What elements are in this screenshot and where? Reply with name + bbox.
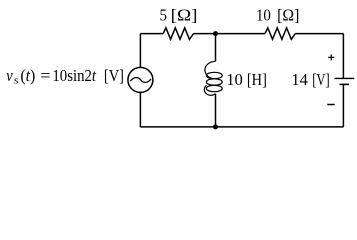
node A junction dot <box>213 31 218 36</box>
svg-text:[Ω]: [Ω] <box>277 6 299 25</box>
wire: left vertical bottom (source to corner) <box>139 92 141 127</box>
wire: top between node A and resistor R2 <box>216 33 266 35</box>
wire: middle branch bottom (inductor to node B) <box>215 94 217 127</box>
node B junction dot <box>213 124 218 129</box>
svg-text:s: s <box>14 76 19 87</box>
wire: top-left from corner to resistor R1 <box>140 33 163 35</box>
ac source sine wave <box>130 78 151 83</box>
inductor L1 loop 2 <box>206 79 222 85</box>
svg-text:5: 5 <box>160 6 167 25</box>
svg-text:[H]: [H] <box>247 70 267 89</box>
wire: right vertical bottom (battery to corner) <box>342 84 344 127</box>
wire: left vertical top (corner to source) <box>139 34 141 68</box>
wire: middle branch top (node A to inductor) <box>215 34 217 62</box>
inductor L1 loop 1 <box>206 72 222 78</box>
battery minus sign <box>327 104 334 106</box>
resistor R1 5 ohm <box>163 28 193 40</box>
svg-text:=: = <box>40 66 50 85</box>
svg-text:(t): (t) <box>20 66 35 85</box>
inductor L1 exit hook <box>204 85 215 95</box>
battery E1 long plate plus <box>335 77 355 79</box>
inductor L1 loop 3 <box>206 85 222 91</box>
wire: bottom horizontal <box>140 126 343 128</box>
ac source V1 circle <box>128 67 153 92</box>
svg-text:[V]: [V] <box>104 66 124 85</box>
svg-text:10: 10 <box>256 6 271 25</box>
battery plus sign <box>328 54 334 60</box>
wire: top-right from R2 to corner <box>295 33 343 35</box>
svg-text:10: 10 <box>226 70 243 89</box>
inductor L1 entry hook <box>205 61 216 78</box>
svg-text:[Ω]: [Ω] <box>171 6 198 25</box>
svg-text:14: 14 <box>291 70 308 89</box>
svg-text:10sin2t: 10sin2t <box>52 66 97 85</box>
wire: top between R1 and node A <box>194 33 216 35</box>
resistor R2 10 ohm <box>265 28 295 40</box>
svg-text:v: v <box>6 66 13 85</box>
battery E1 short plate minus <box>340 83 350 85</box>
svg-text:[V]: [V] <box>312 70 330 89</box>
wire: right vertical top (corner to battery) <box>342 34 344 79</box>
